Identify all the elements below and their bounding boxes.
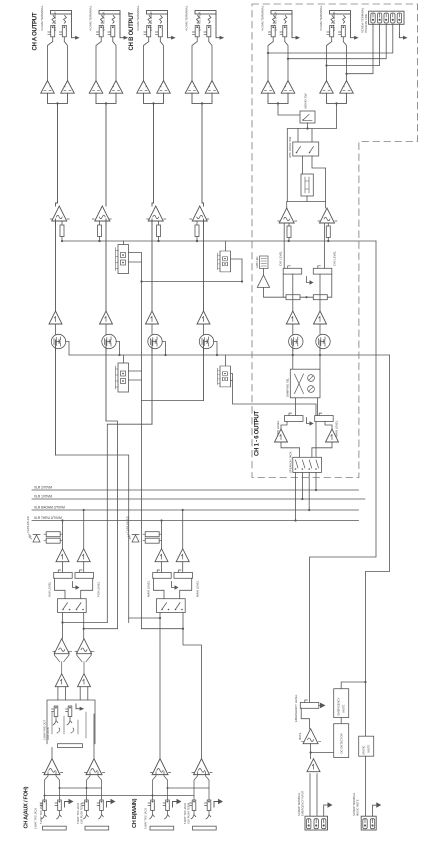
svg-text:CH A(AUX / FOH): CH A(AUX / FOH) xyxy=(24,786,30,828)
svg-text:5 WAY TRS JACK: 5 WAY TRS JACK xyxy=(34,808,38,829)
svg-text:EMERGENCY LEVEL: EMERGENCY LEVEL xyxy=(294,694,298,722)
svg-text:MUTE: MUTE xyxy=(367,744,371,752)
svg-text:5 WAY TRS JACK: 5 WAY TRS JACK xyxy=(76,803,80,824)
svg-text:EMERGENCY: EMERGENCY xyxy=(337,697,341,715)
svg-text:FOH LEVEL: FOH LEVEL xyxy=(97,581,101,597)
svg-text:DAMPING SEL: DAMPING SEL xyxy=(286,377,290,397)
svg-text:5 WAY PRE OUT: 5 WAY PRE OUT xyxy=(43,720,47,740)
svg-text:MUTE: MUTE xyxy=(298,732,302,740)
svg-text:5 WAY TRS JACK: 5 WAY TRS JACK xyxy=(144,808,148,829)
svg-text:XLR PUSH TERM: XLR PUSH TERM xyxy=(187,803,191,824)
svg-text:XLR 1/70VM: XLR 1/70VM xyxy=(34,495,52,499)
svg-text:5 WAY TRS JACK: 5 WAY TRS JACK xyxy=(39,803,43,824)
svg-text:CH 1 - 6 OUTPUT: CH 1 - 6 OUTPUT xyxy=(255,410,261,456)
svg-text:AMP LED: AMP LED xyxy=(255,257,259,268)
svg-text:SPEAKON JACK: SPEAKON JACK xyxy=(289,451,293,473)
svg-text:MUTE: MUTE xyxy=(342,704,346,712)
svg-text:CH2 LEVEL: CH2 LEVEL xyxy=(333,250,337,266)
svg-text:CH B(MAIN): CH B(MAIN) xyxy=(132,798,138,828)
svg-text:EMERGENCY INPUT: EMERGENCY INPUT xyxy=(301,790,305,816)
svg-text:MUSIC: MUSIC xyxy=(362,745,366,754)
svg-text:XLR THRU 2/70VM: XLR THRU 2/70VM xyxy=(34,516,62,520)
svg-text:CH A OUTPUT: CH A OUTPUT xyxy=(33,12,39,50)
svg-text:CLIP/LIM LED: CLIP/LIM LED xyxy=(26,516,30,533)
svg-text:AUX JACK: AUX JACK xyxy=(46,727,50,740)
svg-text:CH B OUTPUT: CH B OUTPUT xyxy=(129,12,135,51)
svg-text:HPF 100Hz SW: HPF 100Hz SW xyxy=(288,137,292,158)
svg-text:MAIN LEVEL: MAIN LEVEL xyxy=(196,580,200,597)
svg-text:XLR 2/70VM: XLR 2/70VM xyxy=(34,486,52,490)
svg-text:XLR PUSH TERM: XLR PUSH TERM xyxy=(80,803,84,824)
svg-text:AUX LEVEL: AUX LEVEL xyxy=(48,581,52,597)
svg-text:70V/100V LINE: 70V/100V LINE xyxy=(364,14,368,33)
svg-text:MUSIC MUTE: MUSIC MUTE xyxy=(356,799,360,816)
svg-text:SCREW TERMINAL: SCREW TERMINAL xyxy=(297,792,301,816)
svg-text:MONO SW: MONO SW xyxy=(304,93,308,108)
svg-text:SCREW TERMINAL: SCREW TERMINAL xyxy=(352,792,356,816)
svg-text:DC DETECTOR: DC DETECTOR xyxy=(340,733,344,753)
svg-text:CLIP/LIM LED: CLIP/LIM LED xyxy=(126,516,130,533)
svg-text:MAIN LEVEL: MAIN LEVEL xyxy=(147,580,151,597)
svg-text:XLR 8/4OHM 2/70VM: XLR 8/4OHM 2/70VM xyxy=(34,506,65,510)
svg-text:5 WAY TRS JACK: 5 WAY TRS JACK xyxy=(183,803,187,824)
svg-text:CH1 LEVEL: CH1 LEVEL xyxy=(279,250,283,266)
